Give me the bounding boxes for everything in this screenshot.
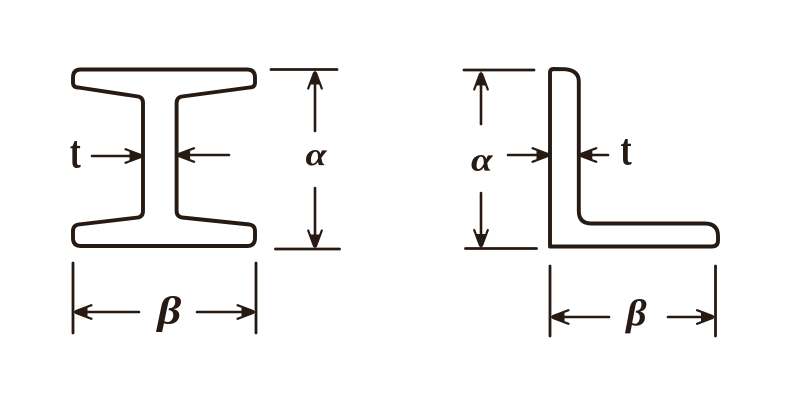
- beta right extension line (right figure): [714, 266, 717, 336]
- beta left extension line (right figure): [549, 266, 552, 336]
- alpha dimension arrow down (left figure): [308, 188, 322, 248]
- t arrow pointing right at leg left edge (right figure): [508, 148, 550, 162]
- alpha dimension arrow up (left figure): [308, 71, 322, 131]
- beta dimension arrow left (left figure): [74, 305, 139, 319]
- label t (right figure): [621, 139, 632, 165]
- label alpha (right figure): [472, 155, 493, 171]
- alpha dimension arrow up (right figure): [474, 72, 488, 124]
- label beta (left figure): [156, 296, 181, 332]
- label alpha (left figure): [306, 150, 327, 165]
- label t (left figure): [70, 141, 80, 168]
- alpha top extension line (left figure): [271, 68, 337, 71]
- I-beam section outline: [73, 70, 255, 247]
- alpha top extension line (right figure): [464, 69, 534, 72]
- beta right extension line (left figure): [255, 263, 258, 333]
- t arrow pointing right at web left edge (left figure): [92, 149, 143, 163]
- beta dimension arrow right (left figure): [197, 305, 255, 319]
- L-angle section outline: [550, 69, 718, 247]
- alpha bottom extension line (left figure): [276, 248, 340, 251]
- beta dimension arrow left (right figure): [551, 310, 609, 324]
- alpha bottom extension line (right figure): [466, 247, 537, 250]
- label beta (right figure): [625, 299, 646, 333]
- t arrow pointing left at leg right edge (right figure): [579, 148, 608, 162]
- beta dimension arrow right (right figure): [668, 310, 715, 324]
- beta left extension line (left figure): [72, 263, 75, 333]
- t arrow pointing left at web right edge (left figure): [177, 148, 229, 162]
- alpha dimension arrow down (right figure): [474, 193, 488, 248]
